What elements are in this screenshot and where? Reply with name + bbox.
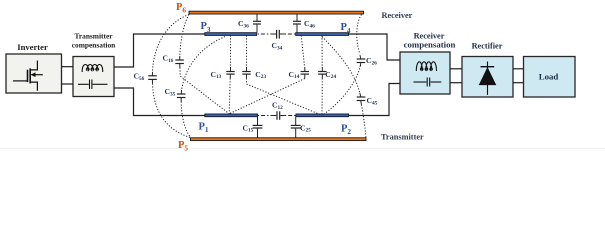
capacitor C23 (P3-P2) — [242, 35, 322, 115]
block load — [524, 57, 576, 98]
capacitor C36 (P3-P6) — [253, 14, 261, 33]
svg-text:Receiver: Receiver — [382, 11, 413, 20]
block inverter U1 — [6, 42, 62, 93]
svg-text:C36: C36 — [238, 19, 249, 29]
svg-text:C35: C35 — [165, 87, 176, 97]
block transmitter compensation — [72, 32, 116, 97]
transistor Q1 (MOSFET in inverter) — [13, 61, 43, 91]
plate P6 (receiver shield, orange) — [189, 11, 364, 14]
wire plate P2 to receiver compensation — [349, 84, 401, 116]
svg-text:P2: P2 — [341, 123, 351, 136]
wire rectifier to load (top stub) — [513, 68, 524, 70]
svg-text:Rectifier: Rectifier — [472, 42, 503, 51]
wire tx comp top terminal to plate P3 — [114, 34, 205, 67]
svg-text:P1: P1 — [199, 121, 209, 134]
svg-text:Transmitter: Transmitter — [381, 133, 424, 142]
plate P3 (blue top-left) — [205, 33, 257, 36]
svg-text:C25: C25 — [300, 123, 311, 133]
svg-text:compensation: compensation — [404, 40, 456, 50]
capacitor C16 (P1-P6, left inner curve) — [175, 15, 229, 114]
diode D1 — [479, 62, 497, 95]
svg-text:C45: C45 — [367, 96, 378, 106]
svg-text:C15: C15 — [243, 123, 254, 133]
capacitor (rx comp internal) — [414, 78, 442, 87]
plate P5 (transmitter shield, orange) — [191, 138, 367, 141]
svg-text:C12: C12 — [272, 101, 283, 111]
inductor L1 (tx coil) — [82, 64, 103, 72]
capacitor C34 (P3-P4, horizontal in dash-dot link) — [258, 30, 296, 39]
svg-text:P6: P6 — [176, 2, 186, 15]
plate P4 (blue top-right) — [296, 33, 349, 36]
capacitor C13 (P3-P1, vertical dotted column) — [226, 35, 234, 113]
svg-text:C46: C46 — [304, 19, 315, 29]
svg-text:Inverter: Inverter — [17, 42, 48, 52]
faint page rule at bottom — [0, 148, 605, 149]
capacitor C46 (P4-P6) — [293, 14, 301, 33]
svg-text:C23: C23 — [255, 70, 266, 80]
capacitor C56 (P5-P6, big left arc) — [148, 15, 190, 138]
block rectifier — [462, 42, 513, 98]
svg-text:C14: C14 — [289, 70, 300, 80]
svg-text:C24: C24 — [325, 70, 336, 80]
block receiver compensation — [400, 32, 456, 95]
svg-text:P3: P3 — [201, 21, 211, 34]
plate P1 (blue bottom-left) — [205, 114, 258, 117]
wire plate P4 to receiver compensation — [349, 34, 401, 60]
svg-text:Load: Load — [539, 72, 559, 82]
svg-text:C34: C34 — [272, 41, 283, 51]
capacitor C12 (P1-P2, horizontal in dash-dot link) — [258, 111, 296, 120]
plate P2 (blue bottom-right) — [296, 114, 349, 117]
svg-text:P5: P5 — [178, 140, 188, 153]
capacitor (tx comp internal) — [78, 80, 108, 90]
svg-text:C26: C26 — [366, 56, 377, 66]
svg-text:compensation: compensation — [72, 41, 116, 50]
wire rectifier to load (bottom stub) — [513, 82, 524, 84]
capacitor C14 (P4-P1) — [229, 35, 309, 113]
wire inverter to transmitter compensation (bottom stub) — [62, 83, 74, 85]
svg-text:C56: C56 — [134, 72, 145, 82]
svg-text:Transmitter: Transmitter — [74, 32, 113, 41]
capacitor C45 (P4-P5, right curve) — [322, 37, 366, 138]
svg-text:P4: P4 — [341, 22, 351, 35]
capacitor C24 (P4-P2) — [318, 35, 326, 115]
wire rx comp to rectifier (bottom stub) — [450, 82, 463, 84]
capacitor C26 (P2-P6, right curve) — [322, 15, 365, 116]
capacitor C35 (P3-P5) — [177, 37, 225, 138]
svg-text:C16: C16 — [163, 54, 174, 64]
inductor L2 (rx coil) — [416, 62, 436, 71]
wire rx comp to rectifier (top stub) — [450, 68, 463, 70]
capacitor C25 (P2-P5, solid drop) — [291, 117, 301, 138]
wire tx comp bottom terminal to plate P1 — [114, 88, 205, 116]
wire inverter to transmitter compensation (top stub) — [62, 66, 74, 68]
capacitor C15 (P1-P5, solid drop) — [253, 117, 263, 138]
svg-text:C13: C13 — [211, 70, 222, 80]
